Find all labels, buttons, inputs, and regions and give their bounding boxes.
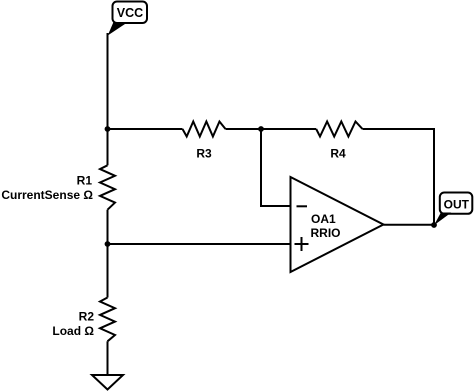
op-amp OA1 — [291, 177, 384, 272]
wire feedback node B to op-amp inverting input — [261, 129, 291, 206]
wire node A to R1 — [107, 129, 109, 165]
svg-text:CurrentSense Ω: CurrentSense Ω — [1, 188, 93, 202]
node B junction (feedback tap) — [258, 126, 264, 132]
node A junction (VCC rail / R1 / R3) — [105, 126, 111, 132]
svg-text:OA1: OA1 — [311, 212, 336, 226]
svg-text:OUT: OUT — [444, 198, 470, 212]
wire node C to op-amp non-inverting input — [108, 243, 291, 245]
wire R4 to output node D (top right corner) — [363, 129, 435, 225]
resistor R4 — [316, 122, 362, 161]
node D output junction — [431, 222, 437, 228]
wire node C to R2 — [107, 244, 109, 298]
svg-text:R3: R3 — [196, 147, 212, 161]
svg-text:R4: R4 — [330, 147, 346, 161]
svg-text:RRIO: RRIO — [311, 226, 341, 240]
net flag VCC — [108, 2, 147, 36]
wire R3 to node B — [226, 128, 262, 130]
ground — [92, 375, 123, 390]
wire VCC flag to node A — [107, 33, 109, 129]
svg-text:VCC: VCC — [117, 6, 143, 20]
svg-text:R2: R2 — [79, 310, 95, 324]
resistor R1 CurrentSense — [1, 165, 115, 209]
svg-text:R1: R1 — [77, 174, 93, 188]
node C junction (R1 / R2 / non-inverting input) — [105, 241, 111, 247]
wire R2 to ground — [107, 341, 109, 375]
net flag OUT — [434, 193, 472, 226]
resistor R3 — [183, 122, 226, 161]
wire node B to R4 — [261, 128, 316, 130]
resistor R2 Load — [52, 298, 115, 342]
wire op-amp output to node D — [384, 224, 435, 226]
wire R1 to node C — [107, 210, 109, 244]
svg-text:Load Ω: Load Ω — [52, 324, 94, 338]
wire node A to R3 — [108, 128, 183, 130]
